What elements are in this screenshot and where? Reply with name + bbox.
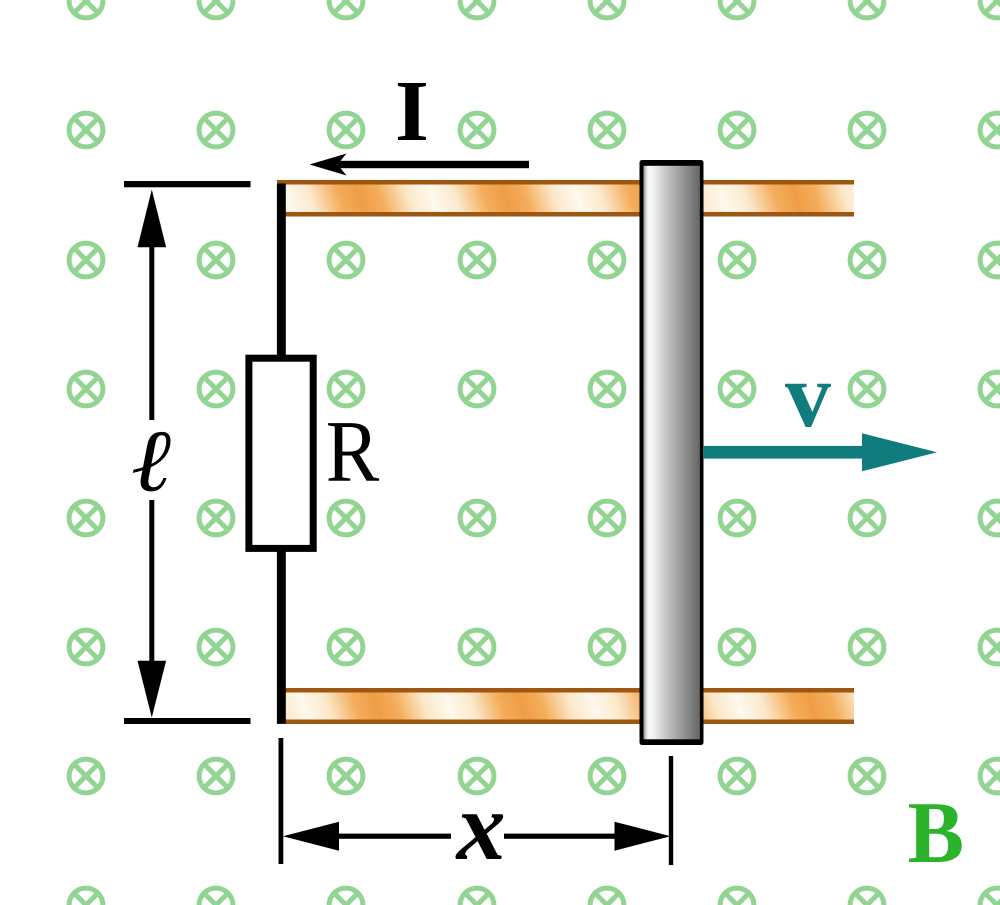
svg-text:x: x	[455, 773, 506, 881]
shaft right segment	[504, 834, 615, 839]
bottom rail	[277, 688, 854, 724]
svg-text:R: R	[326, 404, 380, 501]
dim line upper segment	[149, 240, 154, 420]
up arrowhead	[138, 190, 167, 248]
svg-text:ℓ: ℓ	[131, 414, 171, 511]
top rail	[277, 180, 854, 217]
wire left-top (rail to resistor)	[277, 184, 286, 359]
bottom tick	[124, 718, 251, 724]
svg-text:v: v	[785, 344, 831, 446]
shaft left segment	[339, 834, 451, 839]
svg-text:B: B	[908, 785, 965, 882]
x dimension: left tick	[279, 738, 284, 864]
dim line lower segment	[149, 500, 154, 662]
length dimension l: top tick	[124, 181, 251, 187]
down arrowhead	[138, 661, 167, 718]
wire left-bottom (resistor to rail)	[277, 549, 286, 724]
right tick	[669, 756, 673, 865]
svg-text:I: I	[395, 62, 429, 159]
velocity arrow v	[703, 433, 937, 471]
current arrow I	[310, 154, 530, 176]
conducting rod (slider)	[640, 160, 704, 745]
left arrowhead	[283, 822, 339, 851]
magnetic field symbol grid (B into page)	[69, 0, 103, 18]
right arrowhead	[615, 822, 671, 851]
resistor R	[249, 358, 313, 548]
